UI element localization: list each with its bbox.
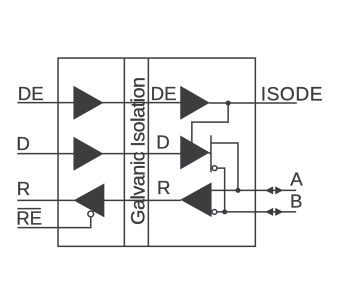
svg-text:D: D (156, 131, 170, 152)
svg-text:A: A (290, 168, 303, 189)
svg-text:R: R (157, 177, 171, 198)
svg-text:RE: RE (16, 207, 42, 228)
svg-text:Galvanic Isolation: Galvanic Isolation (128, 77, 150, 224)
svg-text:B: B (290, 190, 302, 211)
svg-text:ISODE: ISODE (261, 85, 323, 106)
svg-text:R: R (17, 178, 31, 199)
svg-text:DE: DE (18, 83, 44, 104)
svg-text:DE: DE (151, 83, 177, 104)
svg-text:D: D (16, 133, 30, 154)
